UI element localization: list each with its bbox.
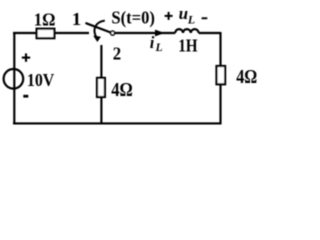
svg-text:1: 1 [72,9,82,29]
svg-text:1H: 1H [178,36,197,56]
svg-text:4Ω: 4Ω [111,79,133,101]
svg-text:2: 2 [113,44,121,64]
svg-text:S(t=0): S(t=0) [111,8,155,29]
svg-text:u: u [179,4,188,23]
svg-text:L: L [155,41,163,54]
svg-text:i: i [150,33,155,52]
svg-text:1Ω: 1Ω [34,10,56,30]
svg-text:10V: 10V [27,70,55,90]
svg-text:4Ω: 4Ω [236,66,257,88]
svg-text:L: L [187,12,195,26]
